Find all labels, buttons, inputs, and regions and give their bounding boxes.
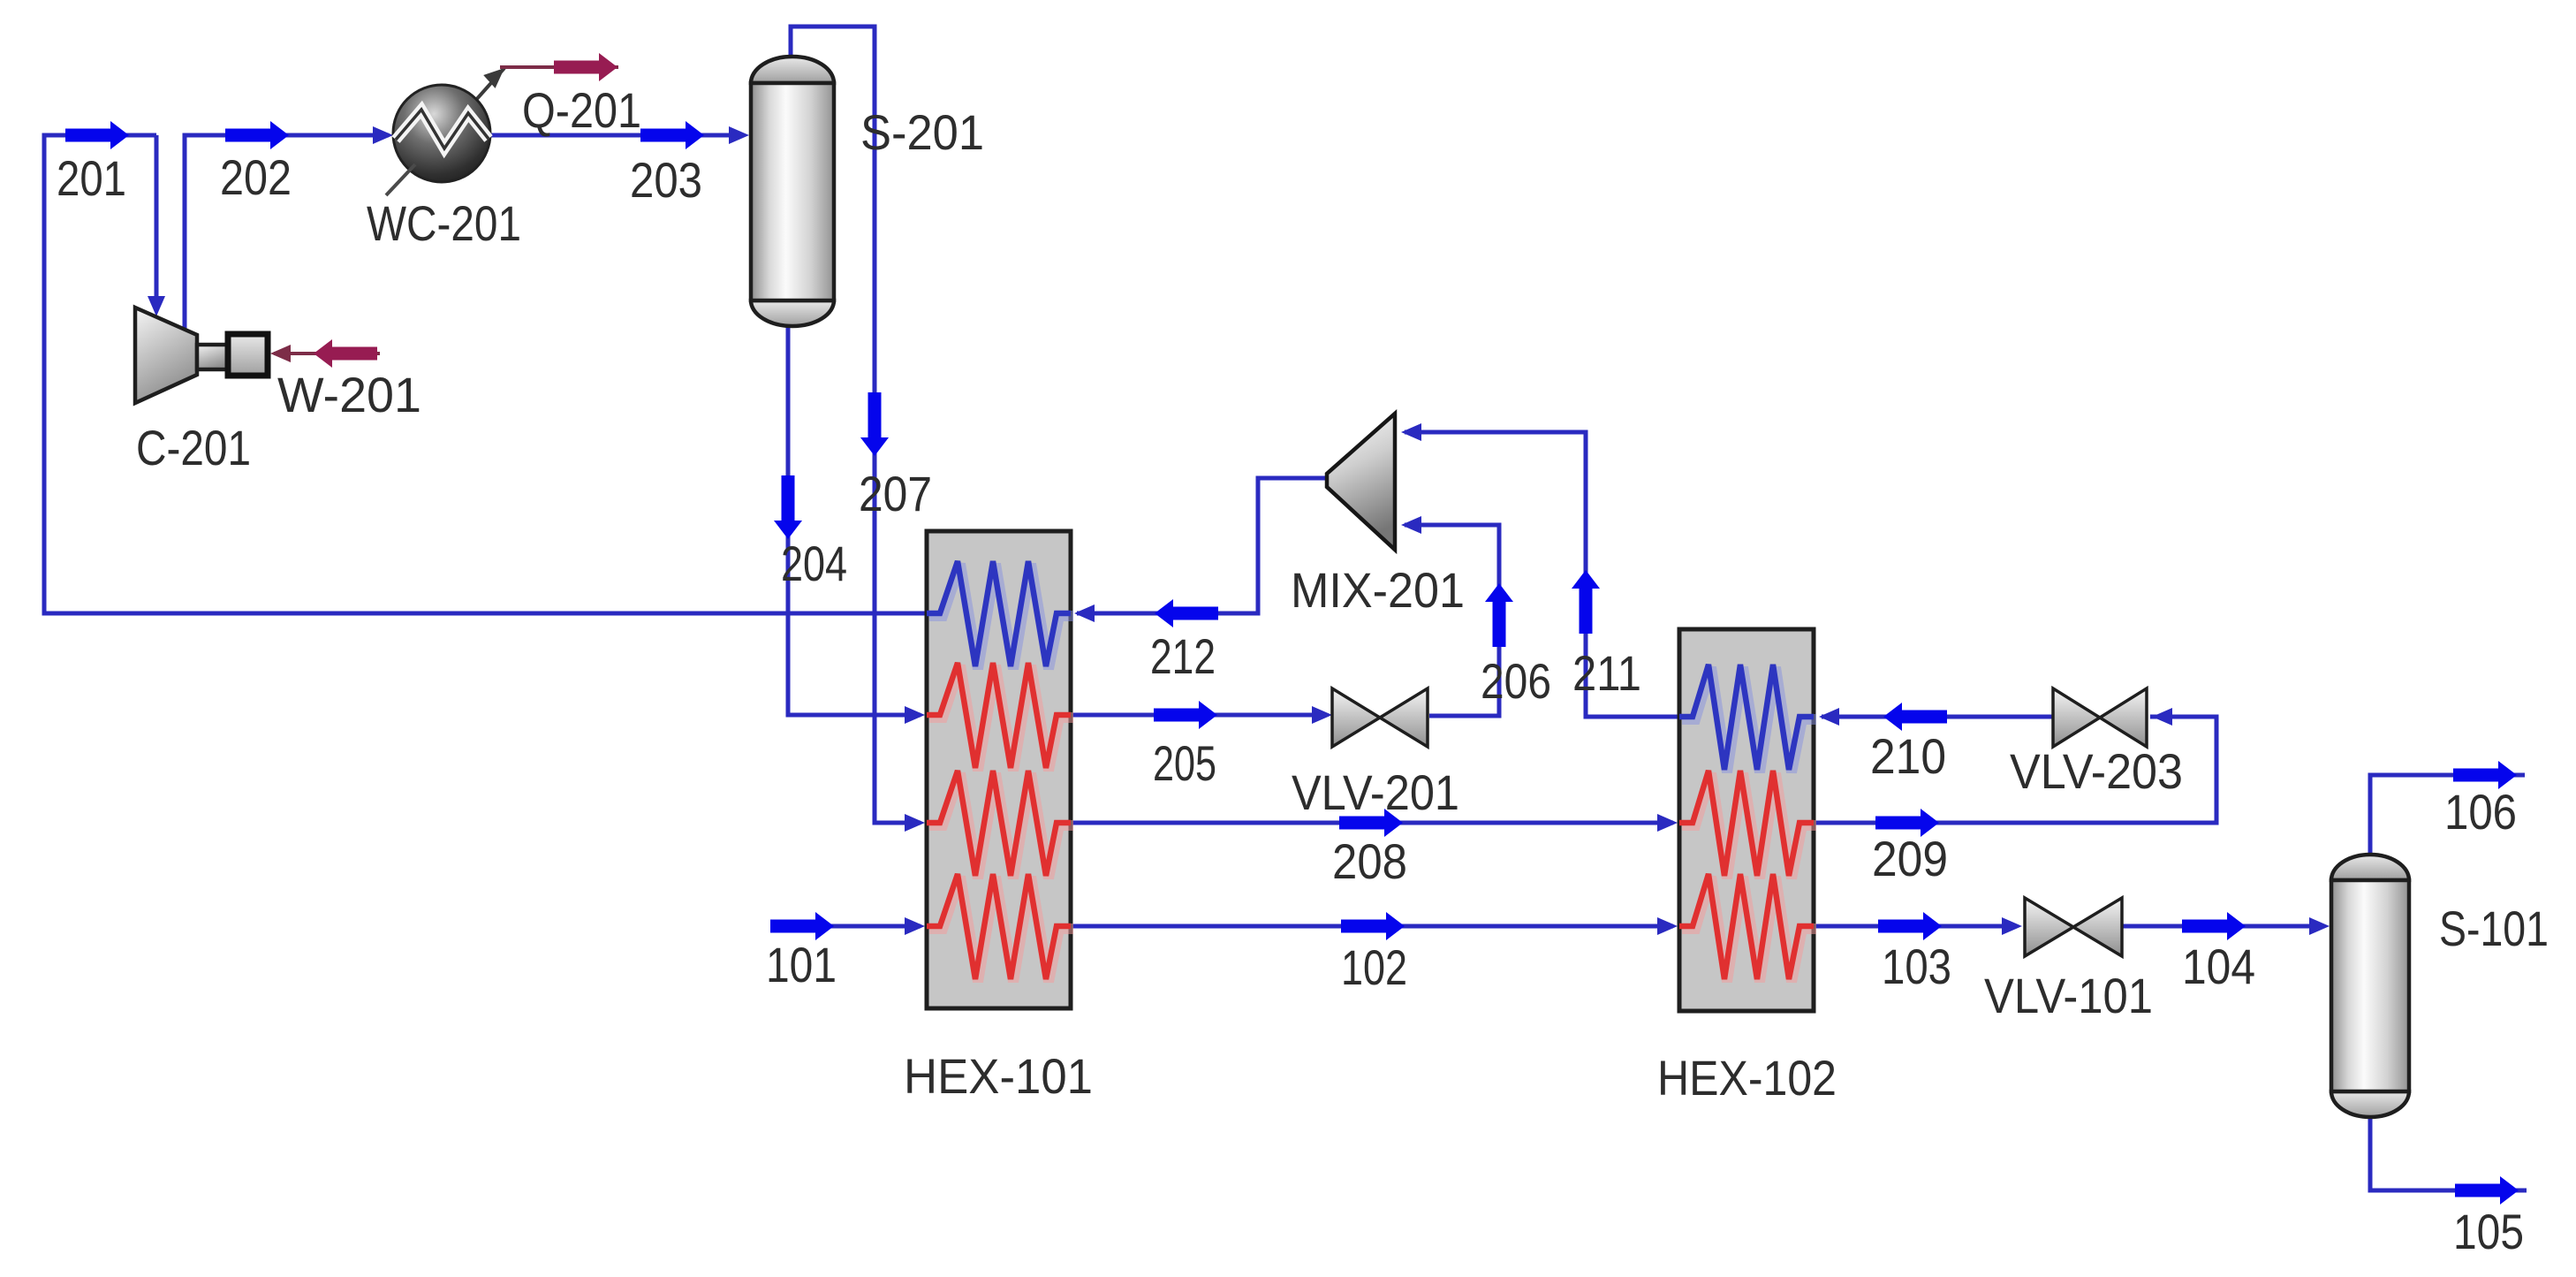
svg-text:C-201: C-201 xyxy=(136,420,251,475)
stream 202 bold arrow xyxy=(225,121,289,149)
svg-text:W-201: W-201 xyxy=(277,367,421,422)
stream 105 bold arrow xyxy=(2455,1176,2519,1205)
svg-text:201: 201 xyxy=(57,150,126,206)
wire stream 205: HEX-101 red coil 1 out to valve VLV-201 xyxy=(1071,713,1327,718)
wire stream 201 down-leg into compressor C-201 inlet xyxy=(155,135,159,309)
separator S-101 xyxy=(2331,855,2409,1117)
wire stream 203: WC-201 to separator S-201 xyxy=(489,133,744,138)
stream 102 bold arrow xyxy=(1341,912,1405,940)
svg-text:S-101: S-101 xyxy=(2439,901,2549,956)
stream 211 bold arrow xyxy=(1572,570,1600,634)
stream 101 bold arrow xyxy=(770,912,834,940)
wire stream 103: HEX-102 red coil 2 out to valve VLV-101 xyxy=(1814,924,2017,929)
stream 204 bold arrow xyxy=(774,475,802,539)
svg-text:VLV-201: VLV-201 xyxy=(1292,764,1459,820)
svg-text:208: 208 xyxy=(1332,833,1407,889)
svg-text:209: 209 xyxy=(1872,831,1948,886)
svg-text:202: 202 xyxy=(220,149,292,205)
svg-text:101: 101 xyxy=(766,937,837,992)
wire stream 101 feed into HEX-101 red coil 3 xyxy=(770,924,921,929)
stream 103 bold arrow xyxy=(1878,912,1942,940)
svg-text:MIX-201: MIX-201 xyxy=(1291,562,1465,618)
svg-text:210: 210 xyxy=(1870,728,1946,784)
svg-text:211: 211 xyxy=(1572,645,1641,701)
wire stream 209: HEX-102 red coil 1 out, right, up, left to valve VLV-203 xyxy=(1814,717,2216,823)
wire energy stream Q-201 from cooler WC-201 xyxy=(475,68,504,101)
stream 210 bold arrow xyxy=(1883,703,1947,731)
stream 104 bold arrow xyxy=(2182,912,2246,940)
wire stream 206: VLV-201 out, right then up into mixer MIX-201 lower inlet xyxy=(1405,525,1499,716)
wire stream 210: VLV-203 out to HEX-102 blue coil xyxy=(1822,715,2053,719)
stream 212 bold arrow xyxy=(1155,599,1218,627)
svg-text:205: 205 xyxy=(1153,735,1216,791)
stream 208 bold arrow xyxy=(1339,809,1403,837)
energy W-201 bold arrow xyxy=(314,339,377,368)
svg-text:206: 206 xyxy=(1481,653,1551,709)
svg-text:VLV-203: VLV-203 xyxy=(2010,743,2183,799)
wire stream 211: HEX-102 blue coil out left, up into mixer MIX-201 upper inlet xyxy=(1405,432,1679,717)
heat exchanger HEX-102 xyxy=(1679,629,1816,1011)
svg-text:HEX-101: HEX-101 xyxy=(904,1048,1093,1104)
stream 209 bold arrow xyxy=(1875,809,1939,837)
stream 106 bold arrow xyxy=(2453,761,2517,789)
svg-text:Q-201: Q-201 xyxy=(522,82,641,138)
wire stream 105: S-101 liquid out bottom right xyxy=(2370,1116,2527,1190)
svg-text:207: 207 xyxy=(859,466,932,521)
stream 207 bold arrow xyxy=(860,392,889,456)
svg-text:203: 203 xyxy=(630,152,702,208)
svg-text:WC-201: WC-201 xyxy=(367,195,521,251)
wire stream 104: VLV-101 out to separator S-101 xyxy=(2123,924,2324,929)
svg-text:106: 106 xyxy=(2444,784,2517,840)
svg-text:VLV-101: VLV-101 xyxy=(1984,968,2153,1023)
valve VLV-101 xyxy=(2025,898,2122,956)
compressor C-201 xyxy=(135,308,268,403)
wire stream 202: C-201 outlet up and right to cooler WC-201 xyxy=(185,135,389,329)
svg-text:S-201: S-201 xyxy=(860,104,984,160)
svg-text:204: 204 xyxy=(781,536,847,591)
separator S-201 xyxy=(751,57,834,326)
energy Q-201 bold arrow xyxy=(554,53,617,81)
svg-text:104: 104 xyxy=(2182,939,2255,994)
wire stream 212: MIX-201 outlet left, down, left into HEX-101 blue coil xyxy=(1077,478,1329,613)
stream 201 bold arrow xyxy=(65,121,129,149)
wire stream 106: S-101 vapour out top right xyxy=(2370,775,2525,855)
wire energy stream W-201 into compressor C-201 xyxy=(274,352,380,355)
wire recycle loop: HEX-101 blue coil out, left along y=694, up at x=50, right to stream 201 xyxy=(44,135,927,613)
wire stream 208: HEX-101 red coil 2 out to HEX-102 red coil 1 xyxy=(1071,821,1673,825)
stream 206 bold arrow xyxy=(1485,583,1513,647)
heat exchanger HEX-101 xyxy=(927,531,1073,1008)
valve VLV-201 xyxy=(1332,688,1428,747)
svg-text:102: 102 xyxy=(1341,939,1407,995)
cooler WC-201 xyxy=(386,85,490,195)
svg-text:103: 103 xyxy=(1882,939,1951,994)
svg-text:212: 212 xyxy=(1150,628,1216,684)
wire stream 204: S-201 liquid out bottom, down then right into HEX-101 red coil 1 xyxy=(788,327,921,715)
svg-text:HEX-102: HEX-102 xyxy=(1657,1050,1837,1106)
stream 203 bold arrow xyxy=(640,121,704,149)
mixer MIX-201 xyxy=(1327,414,1395,550)
valve VLV-203 xyxy=(2053,688,2147,747)
stream 205 bold arrow xyxy=(1154,701,1217,729)
wire stream 102: HEX-101 red coil 3 out to HEX-102 red coil 2 xyxy=(1071,924,1673,929)
wire stream 207: S-201 vapour out top, over and down into HEX-101 red coil 2 xyxy=(791,27,921,823)
svg-text:105: 105 xyxy=(2453,1204,2524,1259)
